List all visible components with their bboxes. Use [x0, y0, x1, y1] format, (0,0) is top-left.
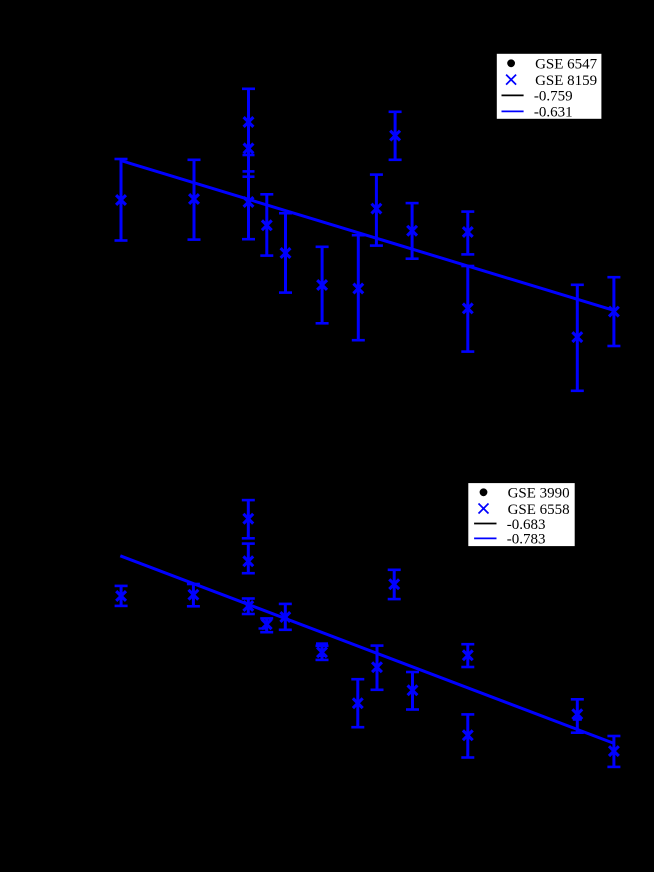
marker X B13 — [572, 709, 582, 719]
marker X B3a — [243, 514, 253, 524]
marker X B1 — [116, 591, 126, 601]
marker X B12 — [463, 730, 473, 740]
svg-text:-0.783: -0.783 — [507, 532, 546, 548]
error bar T2 — [188, 160, 201, 240]
marker X B11 — [463, 650, 473, 660]
error bar T8 — [370, 175, 383, 246]
marker X B2 — [189, 590, 199, 600]
marker X T7 — [353, 284, 363, 294]
marker X B5 — [280, 612, 290, 622]
svg-text:GSE 6558: GSE 6558 — [508, 502, 570, 518]
legend box top — [496, 53, 602, 119]
marker X T10 — [407, 226, 417, 236]
error bar B1 — [115, 586, 128, 606]
marker X T13 — [572, 332, 582, 342]
top subplot: regression line GSE 8159 (-0.631) — [121, 161, 615, 311]
error bar T5 — [279, 213, 292, 292]
marker X T3a — [244, 117, 254, 127]
marker X T5 — [281, 248, 291, 258]
marker X T3c — [244, 197, 254, 207]
marker X T11 — [463, 227, 473, 237]
error bar B7 — [351, 679, 364, 727]
bottom subplot: regression line GSE 6558 (-0.783) — [120, 556, 614, 744]
error bar B3b — [242, 544, 255, 574]
marker X T12 — [463, 304, 473, 314]
svg-text:-0.683: -0.683 — [507, 517, 546, 533]
marker X T2 — [189, 194, 199, 204]
marker X B9 — [389, 579, 399, 589]
error bar B8 — [371, 646, 384, 690]
marker X T3b — [244, 144, 254, 154]
svg-text:-0.759: -0.759 — [534, 89, 573, 105]
error bar T13 — [571, 285, 584, 391]
error bar B13 — [571, 699, 584, 732]
legend box bottom — [468, 482, 576, 546]
legend marker: black dot GSE 6547 — [507, 59, 515, 67]
marker X T1 — [116, 195, 126, 205]
marker X B4 — [262, 619, 272, 629]
marker X B14 — [609, 746, 619, 756]
error bar T12 — [461, 266, 474, 352]
svg-text:GSE 6547: GSE 6547 — [535, 57, 598, 73]
legend marker: blue x GSE 8159 — [506, 75, 516, 85]
marker X B7 — [353, 698, 363, 708]
marker X B3b — [243, 556, 253, 566]
error bar B3a — [242, 500, 255, 538]
error bar T11 — [461, 212, 474, 255]
error bar B5 — [279, 604, 292, 630]
error bar T9 — [389, 112, 402, 160]
svg-text:GSE 8159: GSE 8159 — [535, 73, 597, 89]
legend marker: blue x GSE 6558 — [479, 504, 489, 514]
legend line black -0.683 — [474, 523, 496, 525]
marker X T6 — [317, 280, 327, 290]
error bar B11 — [461, 644, 474, 667]
legend marker: black dot GSE 3990 — [480, 488, 488, 496]
legend line black -0.759 — [502, 94, 524, 96]
marker X T8 — [372, 204, 382, 214]
svg-text:GSE 3990: GSE 3990 — [508, 486, 570, 502]
legend line blue -0.631 — [502, 110, 524, 112]
marker X B8 — [372, 662, 382, 672]
error bar B10 — [406, 672, 419, 710]
extra cap B13 second bar — [573, 718, 582, 721]
error bar B3c — [242, 599, 255, 615]
error bar B2 — [187, 584, 200, 606]
error bar B9 — [388, 570, 401, 599]
marker X B3c — [243, 601, 253, 611]
extra bottom cap near B4 — [259, 627, 267, 629]
legend line blue -0.783 — [474, 537, 496, 539]
error bar T4 — [260, 194, 273, 255]
error bar T3 — [242, 89, 255, 239]
marker X T4 — [262, 220, 272, 230]
extra mini cap B6 — [318, 655, 327, 657]
marker X T9 — [390, 131, 400, 141]
error bar T7 — [352, 235, 365, 340]
marker X B10 — [408, 685, 418, 695]
error bar T1 — [115, 159, 128, 241]
error bar T14 — [607, 277, 620, 346]
marker X T14 — [609, 307, 619, 317]
error bar B12 — [461, 714, 474, 757]
error bar B6 — [316, 644, 329, 660]
svg-text:-0.631: -0.631 — [534, 105, 573, 121]
error bar T6 — [316, 247, 329, 323]
marker X B6 — [317, 647, 327, 657]
error bar B4 — [260, 618, 273, 632]
error bar B14 — [607, 736, 620, 767]
error bar T10 — [406, 203, 419, 259]
